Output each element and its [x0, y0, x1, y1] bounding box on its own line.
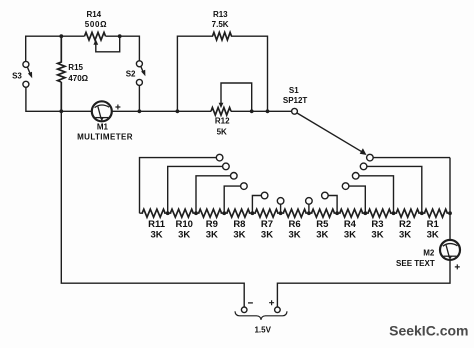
resistor R1 3K	[424, 209, 447, 240]
svg-text:3K: 3K	[206, 230, 218, 241]
svg-text:R15: R15	[68, 63, 83, 72]
svg-text:SP12T: SP12T	[283, 96, 308, 105]
svg-text:3K: 3K	[316, 230, 328, 241]
resistor R4 3K	[340, 209, 363, 240]
wire right vertical to M2	[449, 158, 451, 240]
svg-text:R5: R5	[316, 219, 329, 230]
resistor R13	[212, 10, 232, 40]
wire S3 to meter rail	[26, 87, 92, 111]
svg-text:R10: R10	[175, 219, 192, 230]
meter M1 multimeter	[77, 101, 133, 141]
resistor R2 3K	[396, 209, 419, 240]
wire top-right rail	[177, 36, 267, 111]
junction chain node 1	[166, 211, 170, 215]
wire bottom-left rail	[61, 111, 244, 307]
svg-text:S1: S1	[289, 86, 299, 95]
switch S2	[126, 61, 146, 86]
resistor R14 (potentiometer)	[85, 10, 120, 52]
svg-text:3K: 3K	[151, 230, 163, 241]
svg-text:R4: R4	[344, 219, 357, 230]
junction chain node 10	[420, 211, 424, 215]
node S1 contact 9	[342, 183, 365, 213]
resistor R3 3K	[368, 209, 391, 240]
node S1 contact 1	[140, 154, 223, 213]
junction R13 left leg	[176, 109, 180, 113]
node S1 contact 6	[277, 198, 284, 214]
svg-text:SeekIC.com: SeekIC.com	[389, 323, 468, 339]
node S1 contact 4	[224, 183, 247, 213]
node S1 contact 11	[360, 163, 421, 213]
resistor R8 3K	[227, 209, 250, 240]
svg-text:R8: R8	[233, 219, 245, 230]
node S1 contact 2	[168, 163, 230, 213]
switch S3	[12, 61, 32, 87]
svg-text:SEE TEXT: SEE TEXT	[396, 259, 435, 268]
svg-text:3K: 3K	[427, 230, 439, 241]
svg-text:M1: M1	[97, 122, 109, 131]
junction R14 wiper return	[118, 34, 122, 38]
battery 1.5V	[235, 300, 287, 334]
junction chain node 4	[251, 211, 255, 215]
svg-text:S3: S3	[12, 71, 22, 80]
wire top-left rail	[26, 36, 140, 61]
junction R12 wiper return	[250, 109, 254, 113]
switch S1 rotary SP12T	[283, 86, 367, 155]
svg-text:R2: R2	[399, 219, 411, 230]
wire meter rail	[112, 110, 292, 112]
resistor R9 3K	[199, 209, 222, 240]
svg-text:3K: 3K	[233, 230, 245, 241]
node S1 contact 5	[252, 192, 268, 213]
svg-text:R14: R14	[86, 10, 101, 19]
resistor R10 3K	[170, 209, 193, 240]
svg-text:3K: 3K	[399, 230, 411, 241]
resistor R6 3K	[283, 209, 306, 240]
wire S2 to meter rail	[138, 86, 140, 112]
potentiometer R12	[211, 83, 252, 136]
svg-text:S2: S2	[126, 69, 136, 78]
svg-text:3K: 3K	[371, 230, 383, 241]
junction S2 bottom	[138, 109, 142, 113]
node S1 contact 12	[367, 154, 450, 161]
junction R15 bottom	[59, 109, 63, 113]
node S1 contact 7	[306, 198, 313, 214]
svg-text:R3: R3	[371, 219, 383, 230]
resistor R7 3K	[255, 209, 278, 240]
junction R13 right leg	[266, 109, 270, 113]
svg-text:3K: 3K	[261, 230, 273, 241]
svg-text:3K: 3K	[289, 230, 301, 241]
meter M2	[396, 240, 460, 270]
svg-text:R1: R1	[427, 219, 440, 230]
node S1 contact 8	[322, 192, 338, 213]
svg-text:R9: R9	[206, 219, 218, 230]
svg-text:R11: R11	[148, 219, 166, 230]
svg-text:7.5K: 7.5K	[212, 20, 229, 29]
junction chain node 5	[279, 211, 283, 215]
svg-text:R6: R6	[289, 219, 301, 230]
junction chain node 2	[194, 211, 198, 215]
svg-text:MULTIMETER: MULTIMETER	[77, 133, 133, 142]
wire bottom-right rail	[277, 260, 450, 307]
node S1 contact 3	[196, 173, 237, 214]
junction chain node 9	[392, 211, 396, 215]
svg-text:1.5V: 1.5V	[254, 325, 271, 334]
junction chain node 3	[222, 211, 226, 215]
svg-text:500Ω: 500Ω	[85, 20, 108, 29]
junction R15 top	[59, 34, 63, 38]
junction chain right end	[448, 211, 452, 215]
junction chain node 8	[363, 211, 367, 215]
svg-text:R13: R13	[213, 10, 228, 19]
svg-text:5K: 5K	[217, 127, 227, 136]
junction chain node 7	[335, 211, 339, 215]
svg-text:470Ω: 470Ω	[68, 74, 88, 83]
svg-text:3K: 3K	[344, 230, 356, 241]
junction chain node 6	[307, 211, 311, 215]
wire resistor chain rail	[140, 212, 451, 214]
node S1 contact 10	[352, 173, 393, 214]
svg-text:M2: M2	[423, 248, 435, 257]
svg-text:3K: 3K	[178, 230, 190, 241]
svg-text:R7: R7	[261, 219, 273, 230]
resistor R11 3K	[142, 209, 166, 240]
resistor R15	[58, 36, 89, 111]
resistor R5 3K	[312, 209, 335, 240]
svg-text:R12: R12	[215, 117, 230, 126]
